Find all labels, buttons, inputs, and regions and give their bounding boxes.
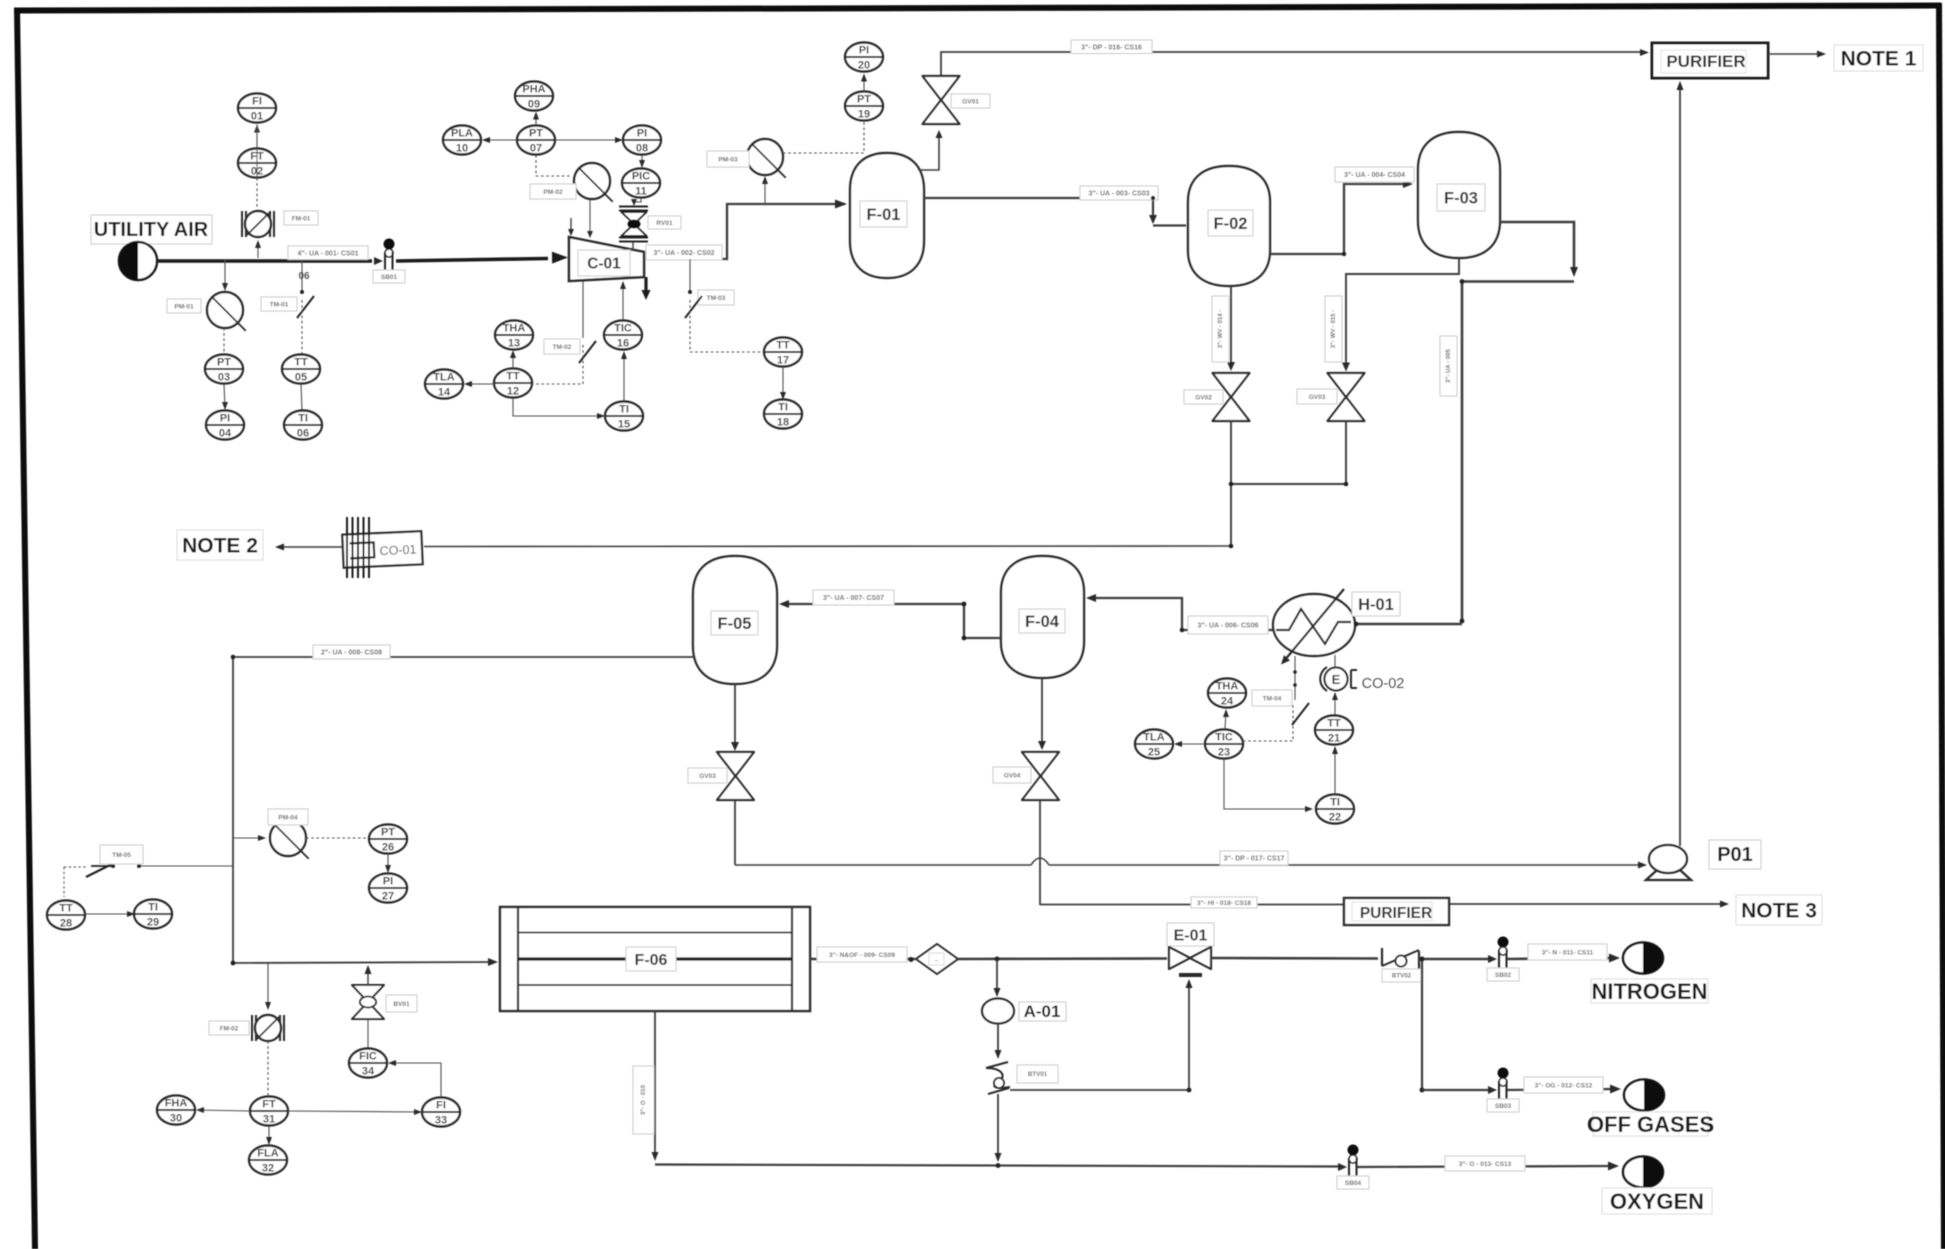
svg-text:CO-02: CO-02 bbox=[1362, 676, 1405, 692]
svg-text:FI: FI bbox=[252, 96, 262, 108]
svg-text:21: 21 bbox=[1328, 733, 1340, 745]
svg-text:03: 03 bbox=[218, 372, 230, 384]
svg-text:3"- O - 013- CS13: 3"- O - 013- CS13 bbox=[1459, 1161, 1512, 1168]
svg-text:06: 06 bbox=[297, 428, 309, 440]
svg-text:29: 29 bbox=[147, 917, 159, 929]
svg-text:A-01: A-01 bbox=[1024, 1002, 1061, 1021]
svg-text:PLA: PLA bbox=[451, 128, 473, 140]
svg-text:TM-02: TM-02 bbox=[553, 344, 572, 351]
svg-text:01: 01 bbox=[251, 111, 263, 123]
svg-text:PHA: PHA bbox=[522, 84, 545, 96]
svg-text:GV01: GV01 bbox=[962, 98, 979, 105]
svg-text:24: 24 bbox=[1221, 696, 1234, 708]
svg-text:32: 32 bbox=[262, 1163, 274, 1175]
svg-text:08: 08 bbox=[636, 143, 648, 155]
svg-text:NOTE 1: NOTE 1 bbox=[1841, 48, 1917, 71]
svg-text:TT: TT bbox=[294, 357, 308, 369]
svg-text:3"- UA - 004- CS04: 3"- UA - 004- CS04 bbox=[1344, 172, 1405, 179]
svg-text:FT: FT bbox=[262, 1099, 276, 1111]
svg-text:34: 34 bbox=[362, 1066, 375, 1078]
svg-text:PT: PT bbox=[857, 94, 871, 106]
svg-text:18: 18 bbox=[777, 417, 789, 429]
svg-text:TIC: TIC bbox=[1215, 732, 1233, 744]
svg-text:SB04: SB04 bbox=[1345, 1180, 1362, 1187]
svg-text:TM-03: TM-03 bbox=[707, 295, 726, 302]
svg-text:3"- N&OF - 009- CS09: 3"- N&OF - 009- CS09 bbox=[829, 952, 895, 959]
svg-text:FLA: FLA bbox=[257, 1148, 278, 1160]
svg-text:SB02: SB02 bbox=[1495, 972, 1512, 979]
svg-text:3"- HI - 018- CS18: 3"- HI - 018- CS18 bbox=[1197, 900, 1251, 907]
svg-text:2"- UA - 008- CS08: 2"- UA - 008- CS08 bbox=[321, 650, 382, 657]
svg-text:TLA: TLA bbox=[433, 372, 454, 384]
svg-text:PM-04: PM-04 bbox=[278, 814, 298, 821]
svg-text:3"- UA - 005: 3"- UA - 005 bbox=[1446, 349, 1452, 383]
svg-text:3"- DP - 016- CS16: 3"- DP - 016- CS16 bbox=[1081, 44, 1142, 51]
svg-text:PM-02: PM-02 bbox=[543, 189, 563, 196]
svg-text:17: 17 bbox=[777, 355, 789, 367]
svg-text:F-05: F-05 bbox=[718, 615, 752, 633]
svg-text:GV04: GV04 bbox=[1004, 772, 1021, 779]
svg-text:26: 26 bbox=[382, 842, 394, 854]
svg-text:BTV02: BTV02 bbox=[1392, 973, 1412, 980]
svg-text:OFF GASES: OFF GASES bbox=[1587, 1112, 1714, 1137]
svg-text:RV01: RV01 bbox=[656, 220, 673, 227]
svg-text:3"- UA - 006- CS06: 3"- UA - 006- CS06 bbox=[1197, 623, 1258, 630]
svg-text:TI: TI bbox=[298, 413, 308, 425]
svg-text:3"- UA - 002- CS02: 3"- UA - 002- CS02 bbox=[653, 250, 714, 257]
svg-text:TM-05: TM-05 bbox=[112, 852, 131, 859]
svg-text:PURIFIER: PURIFIER bbox=[1666, 52, 1745, 71]
svg-text:PI: PI bbox=[220, 413, 230, 425]
svg-text:3"- UA - 003- CS03: 3"- UA - 003- CS03 bbox=[1088, 191, 1149, 198]
svg-text:F-03: F-03 bbox=[1444, 189, 1478, 207]
svg-text:→: → bbox=[933, 957, 940, 964]
svg-text:27: 27 bbox=[382, 891, 394, 903]
svg-text:4"- UA - 001- CS01: 4"- UA - 001- CS01 bbox=[297, 250, 358, 257]
svg-text:07: 07 bbox=[530, 143, 542, 155]
svg-text:OXYGEN: OXYGEN bbox=[1610, 1189, 1704, 1214]
svg-text:GV02: GV02 bbox=[1195, 394, 1212, 401]
svg-text:TT: TT bbox=[59, 903, 73, 915]
svg-text:F-06: F-06 bbox=[635, 952, 668, 969]
svg-text:15: 15 bbox=[618, 419, 630, 431]
svg-text:C-01: C-01 bbox=[587, 256, 621, 273]
svg-text:30: 30 bbox=[170, 1113, 182, 1125]
svg-text:SB01: SB01 bbox=[381, 274, 398, 281]
svg-text:06: 06 bbox=[298, 271, 310, 282]
svg-text:11: 11 bbox=[635, 186, 647, 198]
svg-text:GV03: GV03 bbox=[699, 773, 716, 780]
svg-text:31: 31 bbox=[263, 1114, 275, 1126]
svg-text:12: 12 bbox=[507, 386, 519, 398]
svg-text:BV01: BV01 bbox=[393, 1001, 410, 1008]
svg-text:PM-01: PM-01 bbox=[174, 303, 194, 310]
svg-text:NOTE 3: NOTE 3 bbox=[1741, 900, 1817, 923]
svg-text:3"- DP - 017- CS17: 3"- DP - 017- CS17 bbox=[1224, 856, 1285, 863]
svg-text:09: 09 bbox=[528, 99, 540, 111]
svg-text:FM-01: FM-01 bbox=[292, 215, 311, 222]
svg-text:28: 28 bbox=[60, 918, 72, 930]
svg-text:PI: PI bbox=[637, 128, 647, 140]
svg-text:3"- O - 010: 3"- O - 010 bbox=[641, 1084, 647, 1115]
svg-text:CO-01: CO-01 bbox=[379, 543, 416, 559]
svg-text:SB03: SB03 bbox=[1495, 1103, 1512, 1110]
svg-text:3"- UA - 007- CS07: 3"- UA - 007- CS07 bbox=[823, 595, 884, 602]
svg-text:FI: FI bbox=[436, 1100, 446, 1112]
svg-text:THA: THA bbox=[1216, 681, 1239, 693]
svg-text:UTILITY AIR: UTILITY AIR bbox=[94, 219, 209, 241]
svg-text:3"- WV - 015 -: 3"- WV - 015 - bbox=[1331, 310, 1337, 349]
svg-text:TLA: TLA bbox=[1143, 732, 1164, 744]
svg-text:13: 13 bbox=[508, 338, 520, 350]
svg-text:PT: PT bbox=[217, 357, 231, 369]
svg-text:PURIFIER: PURIFIER bbox=[1360, 905, 1432, 922]
svg-text:NOTE 2: NOTE 2 bbox=[182, 535, 258, 558]
svg-text:PM-03: PM-03 bbox=[718, 156, 738, 163]
svg-text:16: 16 bbox=[617, 338, 629, 350]
svg-text:3"- OG - 012- CS12: 3"- OG - 012- CS12 bbox=[1535, 1082, 1593, 1089]
svg-text:NITROGEN: NITROGEN bbox=[1591, 979, 1707, 1004]
svg-text:TI: TI bbox=[619, 404, 629, 416]
svg-text:BTV01: BTV01 bbox=[1028, 1071, 1048, 1078]
svg-text:TM-01: TM-01 bbox=[270, 301, 289, 308]
svg-text:E: E bbox=[1332, 672, 1341, 687]
svg-text:F-01: F-01 bbox=[867, 206, 901, 224]
svg-text:20: 20 bbox=[858, 60, 870, 72]
svg-text:PI: PI bbox=[859, 45, 869, 57]
svg-text:3"- N - 011- CS11: 3"- N - 011- CS11 bbox=[1542, 949, 1594, 956]
svg-text:THA: THA bbox=[503, 323, 526, 335]
svg-text:FIC: FIC bbox=[359, 1051, 377, 1063]
svg-text:TI: TI bbox=[148, 902, 158, 914]
svg-text:PIC: PIC bbox=[632, 171, 650, 183]
svg-text:FM-02: FM-02 bbox=[220, 1025, 239, 1032]
svg-text:PT: PT bbox=[381, 827, 395, 839]
svg-text:22: 22 bbox=[1329, 812, 1341, 824]
svg-text:05: 05 bbox=[295, 372, 307, 384]
svg-text:04: 04 bbox=[219, 428, 232, 440]
svg-text:25: 25 bbox=[1148, 747, 1160, 759]
svg-text:TIC: TIC bbox=[614, 323, 632, 335]
svg-text:19: 19 bbox=[858, 109, 870, 121]
svg-text:TI: TI bbox=[1330, 797, 1340, 809]
svg-text:TT: TT bbox=[1327, 718, 1341, 730]
svg-text:FHA: FHA bbox=[165, 1098, 188, 1110]
svg-text:H-01: H-01 bbox=[1358, 596, 1394, 614]
svg-text:P01: P01 bbox=[1717, 844, 1753, 866]
svg-text:33: 33 bbox=[435, 1115, 447, 1127]
svg-text:F-02: F-02 bbox=[1214, 215, 1248, 233]
svg-text:3"- WV - 014 -: 3"- WV - 014 - bbox=[1218, 310, 1224, 349]
svg-text:10: 10 bbox=[456, 143, 468, 155]
svg-text:TM-04: TM-04 bbox=[1263, 695, 1282, 702]
svg-text:F-04: F-04 bbox=[1025, 613, 1060, 631]
svg-text:GV03: GV03 bbox=[1309, 394, 1326, 401]
svg-text:E-01: E-01 bbox=[1174, 927, 1208, 944]
svg-text:TT: TT bbox=[776, 340, 790, 352]
svg-text:TI: TI bbox=[778, 402, 788, 414]
svg-text:PT: PT bbox=[529, 128, 543, 140]
svg-text:PI: PI bbox=[383, 876, 393, 888]
svg-text:TT: TT bbox=[506, 371, 520, 383]
svg-text:23: 23 bbox=[1218, 747, 1230, 759]
svg-text:14: 14 bbox=[438, 387, 451, 399]
